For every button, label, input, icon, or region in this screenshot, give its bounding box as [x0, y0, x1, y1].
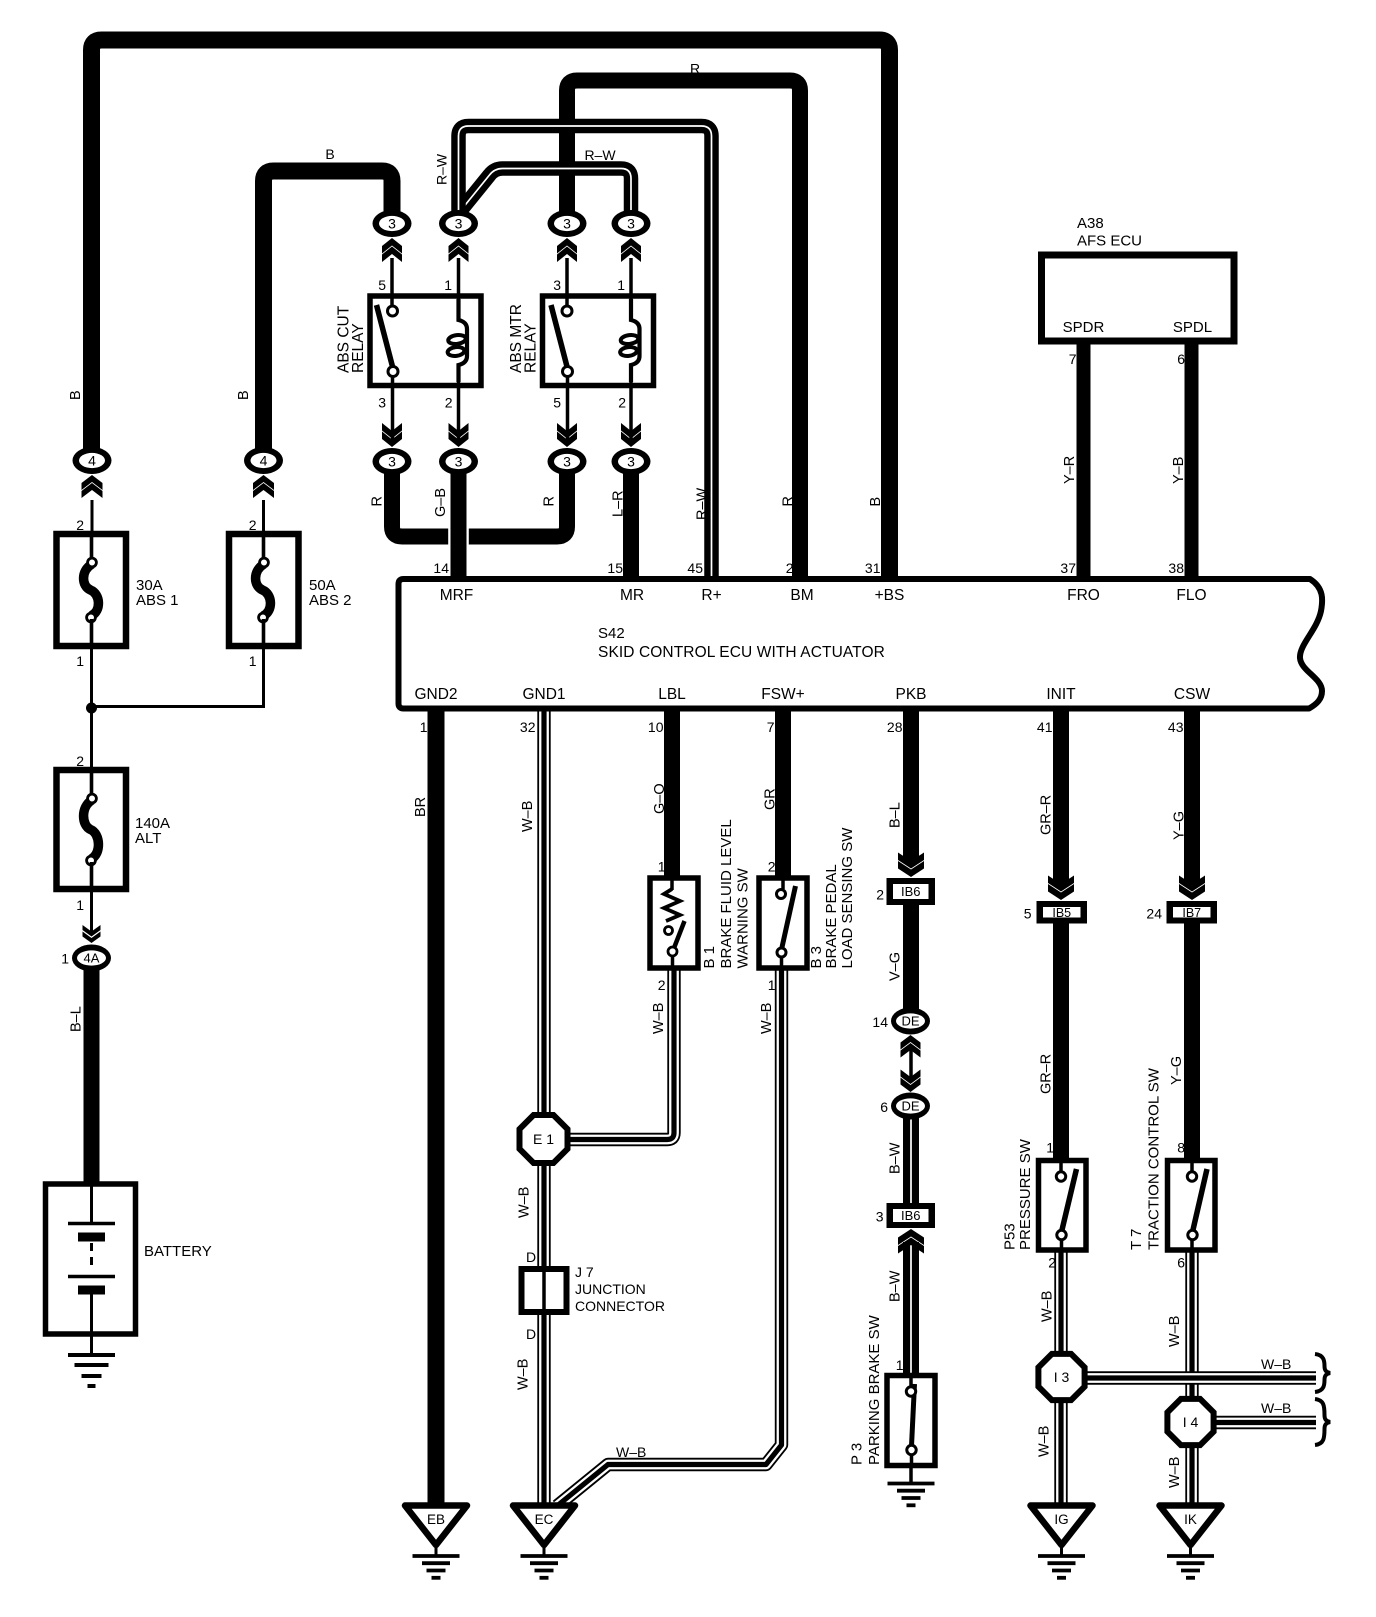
coil ABS CUT RELAY [447, 299, 467, 382]
svg-text:Y–G: Y–G [1172, 811, 1188, 840]
wire W-B from B3 pin 1 to EC ground [557, 968, 782, 1506]
svg-text:1: 1 [249, 653, 257, 669]
svg-text:B 1: B 1 [701, 946, 718, 969]
coil ABS MTR RELAY [620, 299, 640, 382]
svg-text:3: 3 [378, 395, 386, 411]
svg-text:32: 32 [520, 719, 536, 735]
switch P53 PRESSURE SW [1039, 1161, 1087, 1251]
svg-text:37: 37 [1060, 560, 1076, 576]
switch contacts ABS MTR RELAY [551, 305, 573, 377]
svg-text:31: 31 [865, 560, 881, 576]
svg-text:J 7: J 7 [575, 1264, 594, 1280]
svg-text:W–B: W–B [1040, 1291, 1056, 1322]
svg-text:IK: IK [1184, 1512, 1197, 1527]
svg-text:A38: A38 [1077, 215, 1104, 232]
svg-text:Y–B: Y–B [1171, 457, 1187, 484]
svg-text:L–R: L–R [611, 490, 627, 517]
svg-text:CONNECTOR: CONNECTOR [575, 1298, 665, 1314]
svg-text:B–L: B–L [888, 802, 904, 828]
relay ABS MTR RELAY box [543, 296, 654, 386]
svg-text:3: 3 [563, 454, 571, 470]
svg-text:W–B: W–B [1167, 1316, 1183, 1347]
svg-text:43: 43 [1168, 719, 1184, 735]
svg-text:W–B: W–B [1037, 1426, 1053, 1457]
svg-text:W–B: W–B [520, 801, 536, 832]
arrow above DE 6 [901, 1070, 921, 1093]
svg-text:R: R [542, 496, 558, 506]
svg-text:2: 2 [76, 753, 84, 769]
connector 4 pair [73, 447, 112, 474]
connector DE pin 6 [891, 1093, 930, 1120]
svg-text:LOAD SENSING SW: LOAD SENSING SW [839, 827, 856, 969]
svg-text:38: 38 [1168, 560, 1184, 576]
svg-text:R: R [370, 496, 386, 506]
wire GR FSW+ to B3 [775, 708, 791, 880]
svg-text:WARNING SW: WARNING SW [734, 867, 751, 968]
arrows into conn 3 top row [382, 238, 402, 262]
svg-text:+BS: +BS [875, 587, 905, 604]
svg-text:GR–R: GR–R [1038, 1054, 1054, 1094]
svg-text:MRF: MRF [440, 587, 474, 604]
wire V-G IB6 to DE [903, 905, 919, 1012]
wire W-B I3 to IG ground [1054, 1395, 1067, 1505]
connector IB5 pin 5 [1037, 901, 1088, 924]
wire W-B branch from I3 to harness brace [1078, 1371, 1316, 1384]
svg-text:Y–G: Y–G [1169, 1056, 1185, 1085]
wire W-B traction sw to I4 [1185, 1250, 1198, 1405]
svg-text:RELAY: RELAY [522, 323, 539, 373]
svg-text:ALT: ALT [135, 830, 161, 847]
ECU S42 SKID CONTROL ECU WITH ACTUATOR box [399, 579, 1323, 709]
switch P3 PARKING BRAKE SW [887, 1376, 935, 1466]
switch B3 BRAKE PEDAL LOAD SENSING SW [759, 878, 807, 968]
wire B+ battery feed: top-left run to +BS [92, 40, 890, 579]
svg-text:GND2: GND2 [414, 686, 457, 703]
svg-text:GR: GR [763, 788, 779, 810]
svg-text:1: 1 [768, 977, 776, 993]
svg-text:FRO: FRO [1067, 587, 1100, 604]
wire R-W conn3 to ABS MTR relay conn3 [460, 169, 632, 217]
svg-text:2: 2 [618, 395, 626, 411]
svg-text:S42: S42 [598, 625, 625, 642]
svg-text:1: 1 [658, 859, 666, 875]
svg-text:FSW+: FSW+ [761, 686, 805, 703]
svg-text:W–B: W–B [1167, 1457, 1183, 1488]
junction node dot [86, 703, 97, 714]
svg-text:SKID CONTROL ECU WITH ACTUATOR: SKID CONTROL ECU WITH ACTUATOR [598, 644, 885, 661]
svg-text:D: D [526, 1326, 536, 1342]
wire W-B from E1 to B1 pin 2 [566, 968, 674, 1140]
svg-text:SPDL: SPDL [1173, 319, 1212, 336]
arrows into conn 4 [82, 475, 103, 498]
wire R from ABS MTR relay conn to ECU BM [567, 81, 800, 580]
ground below battery [90, 1334, 93, 1353]
wire GR-R IB5 to pressure switch [1053, 923, 1069, 1161]
arrow into IB7 [1179, 876, 1205, 901]
junction connector J7 [522, 1269, 567, 1312]
wire GR-R INIT to IB5 [1053, 708, 1069, 886]
svg-text:45: 45 [687, 560, 703, 576]
svg-text:W–B: W–B [516, 1359, 532, 1390]
svg-text:RELAY: RELAY [350, 323, 367, 373]
svg-text:1: 1 [1046, 1140, 1054, 1156]
svg-text:7: 7 [767, 719, 775, 735]
fuse 140A ALT [57, 770, 127, 889]
svg-text:P 3: P 3 [848, 1443, 865, 1465]
wire relay pin 5 lead [566, 377, 570, 444]
svg-text:PARKING BRAKE SW: PARKING BRAKE SW [866, 1314, 883, 1465]
wire BR GND2 to EB ground [428, 708, 445, 1505]
connector 3 (row below relays) [373, 448, 412, 475]
fuse 50A ABS 2 [229, 534, 299, 646]
svg-text:3: 3 [455, 216, 463, 232]
svg-text:4: 4 [260, 453, 268, 469]
wire Y-G IB7 to traction control switch [1184, 923, 1200, 1161]
svg-text:BRAKE FLUID LEVEL: BRAKE FLUID LEVEL [718, 819, 735, 968]
connector IB6 pin 2 [887, 878, 936, 905]
arrow into IB6 [898, 853, 924, 878]
svg-text:2: 2 [658, 977, 666, 993]
svg-text:TRACTION CONTROL SW: TRACTION CONTROL SW [1145, 1067, 1162, 1250]
svg-text:1: 1 [76, 653, 84, 669]
wire relay pin 3 lead [565, 258, 569, 306]
connector E1 [520, 1115, 568, 1163]
wire relay pin 1 lead [457, 258, 461, 299]
connector I3 [1038, 1354, 1084, 1400]
svg-text:6: 6 [1177, 351, 1185, 367]
svg-text:D: D [526, 1249, 536, 1265]
svg-text:24: 24 [1146, 906, 1162, 922]
svg-text:5: 5 [1024, 906, 1032, 922]
wire relay pin 1 lead [629, 258, 633, 299]
wire G-B from relay conn to ECU MRF (with white halo over R bus) [392, 466, 567, 537]
svg-text:W–B: W–B [1261, 1400, 1291, 1416]
svg-text:ABS 2: ABS 2 [309, 592, 352, 609]
wire ALT fuse to 4A connector [90, 889, 93, 932]
svg-text:8: 8 [1177, 1140, 1185, 1156]
svg-text:3: 3 [563, 216, 571, 232]
ground EB [405, 1506, 467, 1578]
svg-text:T 7: T 7 [1128, 1229, 1145, 1250]
svg-text:BM: BM [790, 587, 813, 604]
svg-text:B: B [68, 390, 84, 400]
battery box [46, 1184, 136, 1334]
svg-text:V–G: V–G [888, 952, 904, 981]
svg-text:R–W: R–W [695, 487, 711, 520]
svg-text:6: 6 [880, 1099, 888, 1115]
svg-text:28: 28 [887, 719, 903, 735]
svg-text:10: 10 [648, 719, 664, 735]
svg-text:G–O: G–O [652, 783, 668, 814]
svg-text:ABS 1: ABS 1 [136, 592, 179, 609]
svg-text:W–B: W–B [651, 1003, 667, 1034]
svg-text:INIT: INIT [1046, 686, 1076, 703]
wire between DE connectors [909, 1048, 913, 1080]
svg-text:14: 14 [433, 560, 449, 576]
switch contacts ABS CUT RELAY [377, 305, 399, 377]
svg-text:14: 14 [872, 1014, 888, 1030]
svg-text:2: 2 [249, 517, 257, 533]
svg-text:CSW: CSW [1174, 686, 1211, 703]
wire W-B I4 to IK ground [1185, 1440, 1198, 1505]
svg-text:R+: R+ [701, 587, 721, 604]
svg-text:BR: BR [413, 797, 429, 817]
svg-text:DE: DE [901, 1014, 919, 1029]
connector IB6 pin 3 [887, 1203, 936, 1228]
svg-text:IB7: IB7 [1182, 906, 1201, 920]
wire relay pin 2 lead [457, 382, 461, 444]
arrow below DE 14 [901, 1035, 921, 1058]
wire relay pin 2 lead [629, 382, 633, 444]
svg-text:W–B: W–B [1261, 1356, 1291, 1372]
svg-text:3: 3 [455, 454, 463, 470]
svg-text:G–B: G–B [433, 488, 449, 517]
fuse 30A ABS 1 [57, 534, 127, 646]
connector DE pin 14 [891, 1008, 930, 1035]
wire W-B pressure sw to I3 [1054, 1250, 1067, 1360]
svg-text:I 4: I 4 [1183, 1414, 1199, 1430]
ground below parking brake switch [909, 1466, 913, 1483]
connector 4A [72, 945, 111, 972]
svg-text:R: R [781, 496, 797, 506]
svg-text:B–W: B–W [888, 1270, 904, 1302]
svg-text:GR–R: GR–R [1038, 795, 1054, 835]
svg-text:2: 2 [1048, 1255, 1056, 1271]
ground IG [1031, 1506, 1093, 1578]
svg-text:15: 15 [607, 560, 623, 576]
svg-text:I 3: I 3 [1054, 1369, 1070, 1385]
svg-text:3: 3 [553, 277, 561, 293]
svg-text:R–W: R–W [433, 153, 449, 185]
svg-text:5: 5 [553, 395, 561, 411]
svg-text:IB5: IB5 [1052, 906, 1071, 920]
wire W-B branch from I4 to harness brace [1207, 1416, 1316, 1429]
svg-text:BRAKE PEDAL: BRAKE PEDAL [823, 864, 840, 968]
arrows into conn 3 bottom row [382, 423, 402, 447]
svg-text:1: 1 [896, 1357, 904, 1373]
svg-text:IG: IG [1054, 1512, 1068, 1527]
svg-text:5: 5 [378, 277, 386, 293]
svg-text:3: 3 [388, 454, 396, 470]
svg-text:R: R [690, 61, 700, 77]
svg-text:PRESSURE SW: PRESSURE SW [1017, 1138, 1034, 1250]
svg-text:IB6: IB6 [901, 884, 921, 899]
wire B to ABS relays via conn 4 and conn 3 [264, 171, 393, 450]
wire fuse pins conn4 feeds [91, 500, 94, 534]
svg-text:IB6: IB6 [901, 1208, 921, 1223]
wire Y-R AFS SPDR to ECU FRO [1077, 341, 1091, 579]
svg-text:2: 2 [876, 887, 884, 903]
connector I4 [1167, 1399, 1213, 1445]
svg-text:JUNCTION: JUNCTION [575, 1281, 646, 1297]
sensor B1 BRAKE FLUID LEVEL WARNING SW [650, 878, 698, 968]
svg-text:1: 1 [444, 277, 452, 293]
svg-text:3: 3 [627, 454, 635, 470]
svg-text:1: 1 [76, 897, 84, 913]
svg-text:B: B [325, 146, 334, 162]
wire relay pin 5 lead [390, 258, 394, 306]
svg-text:6: 6 [1177, 1255, 1185, 1271]
ECU A38 AFS ECU box [1042, 255, 1235, 341]
wire W-B GND1 to E1, J7, EC [537, 708, 550, 1118]
wire Y-B AFS SPDL to ECU FLO [1185, 341, 1199, 579]
svg-text:B–L: B–L [69, 1006, 85, 1032]
arrow into IB5 [1048, 876, 1074, 901]
svg-text:4A: 4A [84, 951, 100, 966]
arrow into 4A [83, 925, 101, 943]
brace harness continuation upper [1315, 1354, 1330, 1392]
connector IB7 pin 24 [1167, 901, 1218, 924]
svg-text:BATTERY: BATTERY [144, 1243, 212, 1260]
svg-text:PKB: PKB [895, 686, 926, 703]
wire relay pin 3 lead [391, 377, 395, 444]
svg-text:B–W: B–W [888, 1142, 904, 1174]
svg-text:1: 1 [420, 719, 428, 735]
svg-text:7: 7 [1069, 351, 1077, 367]
svg-text:MR: MR [620, 587, 644, 604]
svg-text:B: B [868, 497, 884, 507]
wire Y-G CSW to IB7 [1184, 708, 1200, 886]
relay ABS CUT RELAY U1 box [370, 296, 481, 386]
wire fuse ABS2 to junction [92, 646, 264, 707]
svg-text:3: 3 [876, 1209, 884, 1225]
svg-text:EB: EB [427, 1512, 445, 1527]
svg-text:SPDR: SPDR [1063, 319, 1105, 336]
svg-text:2: 2 [768, 859, 776, 875]
svg-text:FLO: FLO [1176, 587, 1206, 604]
svg-text:2: 2 [786, 560, 794, 576]
wire B-L PKB to IB6 [903, 708, 919, 862]
svg-text:W–B: W–B [759, 1003, 775, 1034]
svg-text:E 1: E 1 [533, 1131, 554, 1147]
svg-text:W–B: W–B [517, 1187, 533, 1218]
ground IK [1160, 1506, 1222, 1578]
svg-text:4: 4 [88, 453, 96, 469]
wire B-L 4A connector to battery [84, 968, 100, 1184]
switch T7 TRACTION CONTROL SW [1168, 1161, 1216, 1251]
battery cells [68, 1184, 115, 1334]
wire G-O LBL to B1 [664, 708, 680, 880]
svg-text:R–W: R–W [584, 147, 616, 163]
wire B-W IB6 to parking brake switch [903, 1242, 919, 1376]
svg-text:AFS ECU: AFS ECU [1077, 233, 1142, 250]
svg-text:3: 3 [388, 216, 396, 232]
arrow below IB6 pin 3 [898, 1229, 924, 1254]
svg-text:W–B: W–B [616, 1444, 646, 1460]
svg-text:DE: DE [901, 1099, 919, 1114]
svg-text:GND1: GND1 [522, 686, 565, 703]
svg-text:3: 3 [627, 216, 635, 232]
ground EC [513, 1506, 575, 1578]
svg-text:EC: EC [535, 1512, 554, 1527]
svg-text:P53: P53 [1001, 1223, 1018, 1250]
svg-text:Y–R: Y–R [1062, 456, 1078, 484]
connector 3 (row above relays) [373, 210, 412, 237]
wire R-W conn3 to ECU R+ [459, 126, 712, 579]
svg-text:1: 1 [617, 277, 625, 293]
svg-text:LBL: LBL [658, 686, 686, 703]
svg-text:B: B [236, 390, 252, 400]
svg-text:41: 41 [1037, 719, 1053, 735]
wire B-W DE to IB6 [903, 1115, 919, 1204]
svg-text:2: 2 [76, 517, 84, 533]
svg-text:2: 2 [445, 395, 453, 411]
wire L-R from relay conn to ECU MR [623, 466, 639, 579]
svg-text:1: 1 [61, 951, 69, 967]
brace harness continuation lower [1315, 1399, 1330, 1445]
wire fuse ABS1 to junction [90, 646, 93, 770]
